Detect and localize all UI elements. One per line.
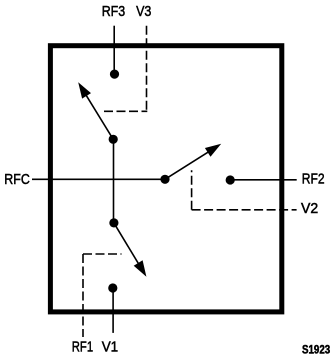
switch arm S1 (114, 223, 146, 277)
node upper pole (109, 135, 118, 144)
wire RF2 lead (230, 179, 297, 181)
control line V1 dashed vertical (82, 254, 84, 337)
wire RFC lead (32, 178, 165, 180)
svg-text:RF3: RF3 (102, 4, 126, 20)
node RF1 contact (108, 283, 117, 292)
svg-text:RF2: RF2 (302, 172, 325, 188)
node lower pole (109, 218, 118, 227)
wire common vertical (113, 139, 115, 223)
node RF3 contact (110, 70, 119, 79)
wire RF1 lead (112, 288, 114, 333)
svg-text:RFC: RFC (4, 172, 30, 188)
node RFC pole (160, 175, 169, 184)
switch arm S3 (78, 82, 113, 139)
control line V2 dashed vertical (191, 170, 193, 210)
svg-text:V2: V2 (301, 201, 318, 217)
switch arm S2 (165, 144, 221, 180)
control line V3 dashed horizontal (104, 110, 147, 112)
wire RF3 lead (113, 26, 115, 74)
control line V3 dashed vertical (146, 26, 148, 112)
svg-text:V1: V1 (102, 340, 119, 356)
svg-text:S1923: S1923 (302, 344, 330, 356)
control line V1 dashed horizontal (83, 253, 122, 255)
control line V2 dashed horizontal (192, 209, 297, 211)
node RF2 contact (226, 175, 235, 184)
package outline (50, 46, 281, 312)
svg-text:V3: V3 (136, 4, 151, 20)
svg-text:RF1: RF1 (72, 340, 93, 356)
